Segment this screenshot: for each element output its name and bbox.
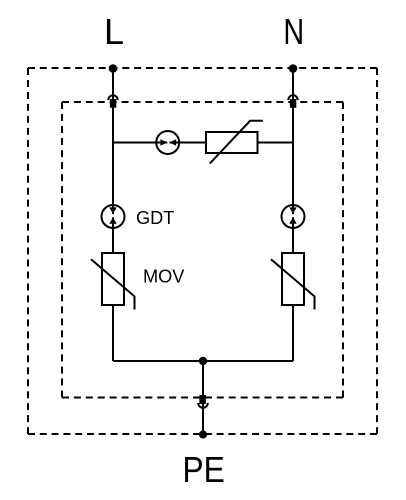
outer dashed enclosure [28,68,377,434]
wire L vertical [112,69,114,254]
wire L to bottom bus [112,305,114,361]
varistor MOV (L leg) [91,253,135,310]
svg-text:GDT: GDT [136,208,174,228]
svg-text:PE: PE [182,449,224,490]
gas discharge tube GDT (L leg) [102,205,125,228]
terminal PE [198,395,208,408]
inner dashed enclosure [62,102,343,398]
wire N to bottom bus [292,305,294,361]
svg-text:MOV: MOV [143,267,185,287]
wire N vertical [292,69,294,254]
wire bottom bus [113,360,293,362]
spark gap F1 (series, top branch) [156,131,179,154]
terminal L [108,95,117,107]
node L [109,64,118,73]
wire PE vertical [202,361,204,434]
node bottom junction [199,357,207,365]
varistor MOV (N leg) [271,253,315,310]
gas discharge tube GDT (N leg) [282,205,305,228]
node PE [199,430,207,438]
svg-text:L: L [104,11,124,52]
terminal N [288,95,297,107]
wire L-N branch [113,142,293,144]
varistor RV3 (series, top branch) [206,121,263,164]
svg-text:N: N [283,11,304,52]
node N [289,64,298,73]
